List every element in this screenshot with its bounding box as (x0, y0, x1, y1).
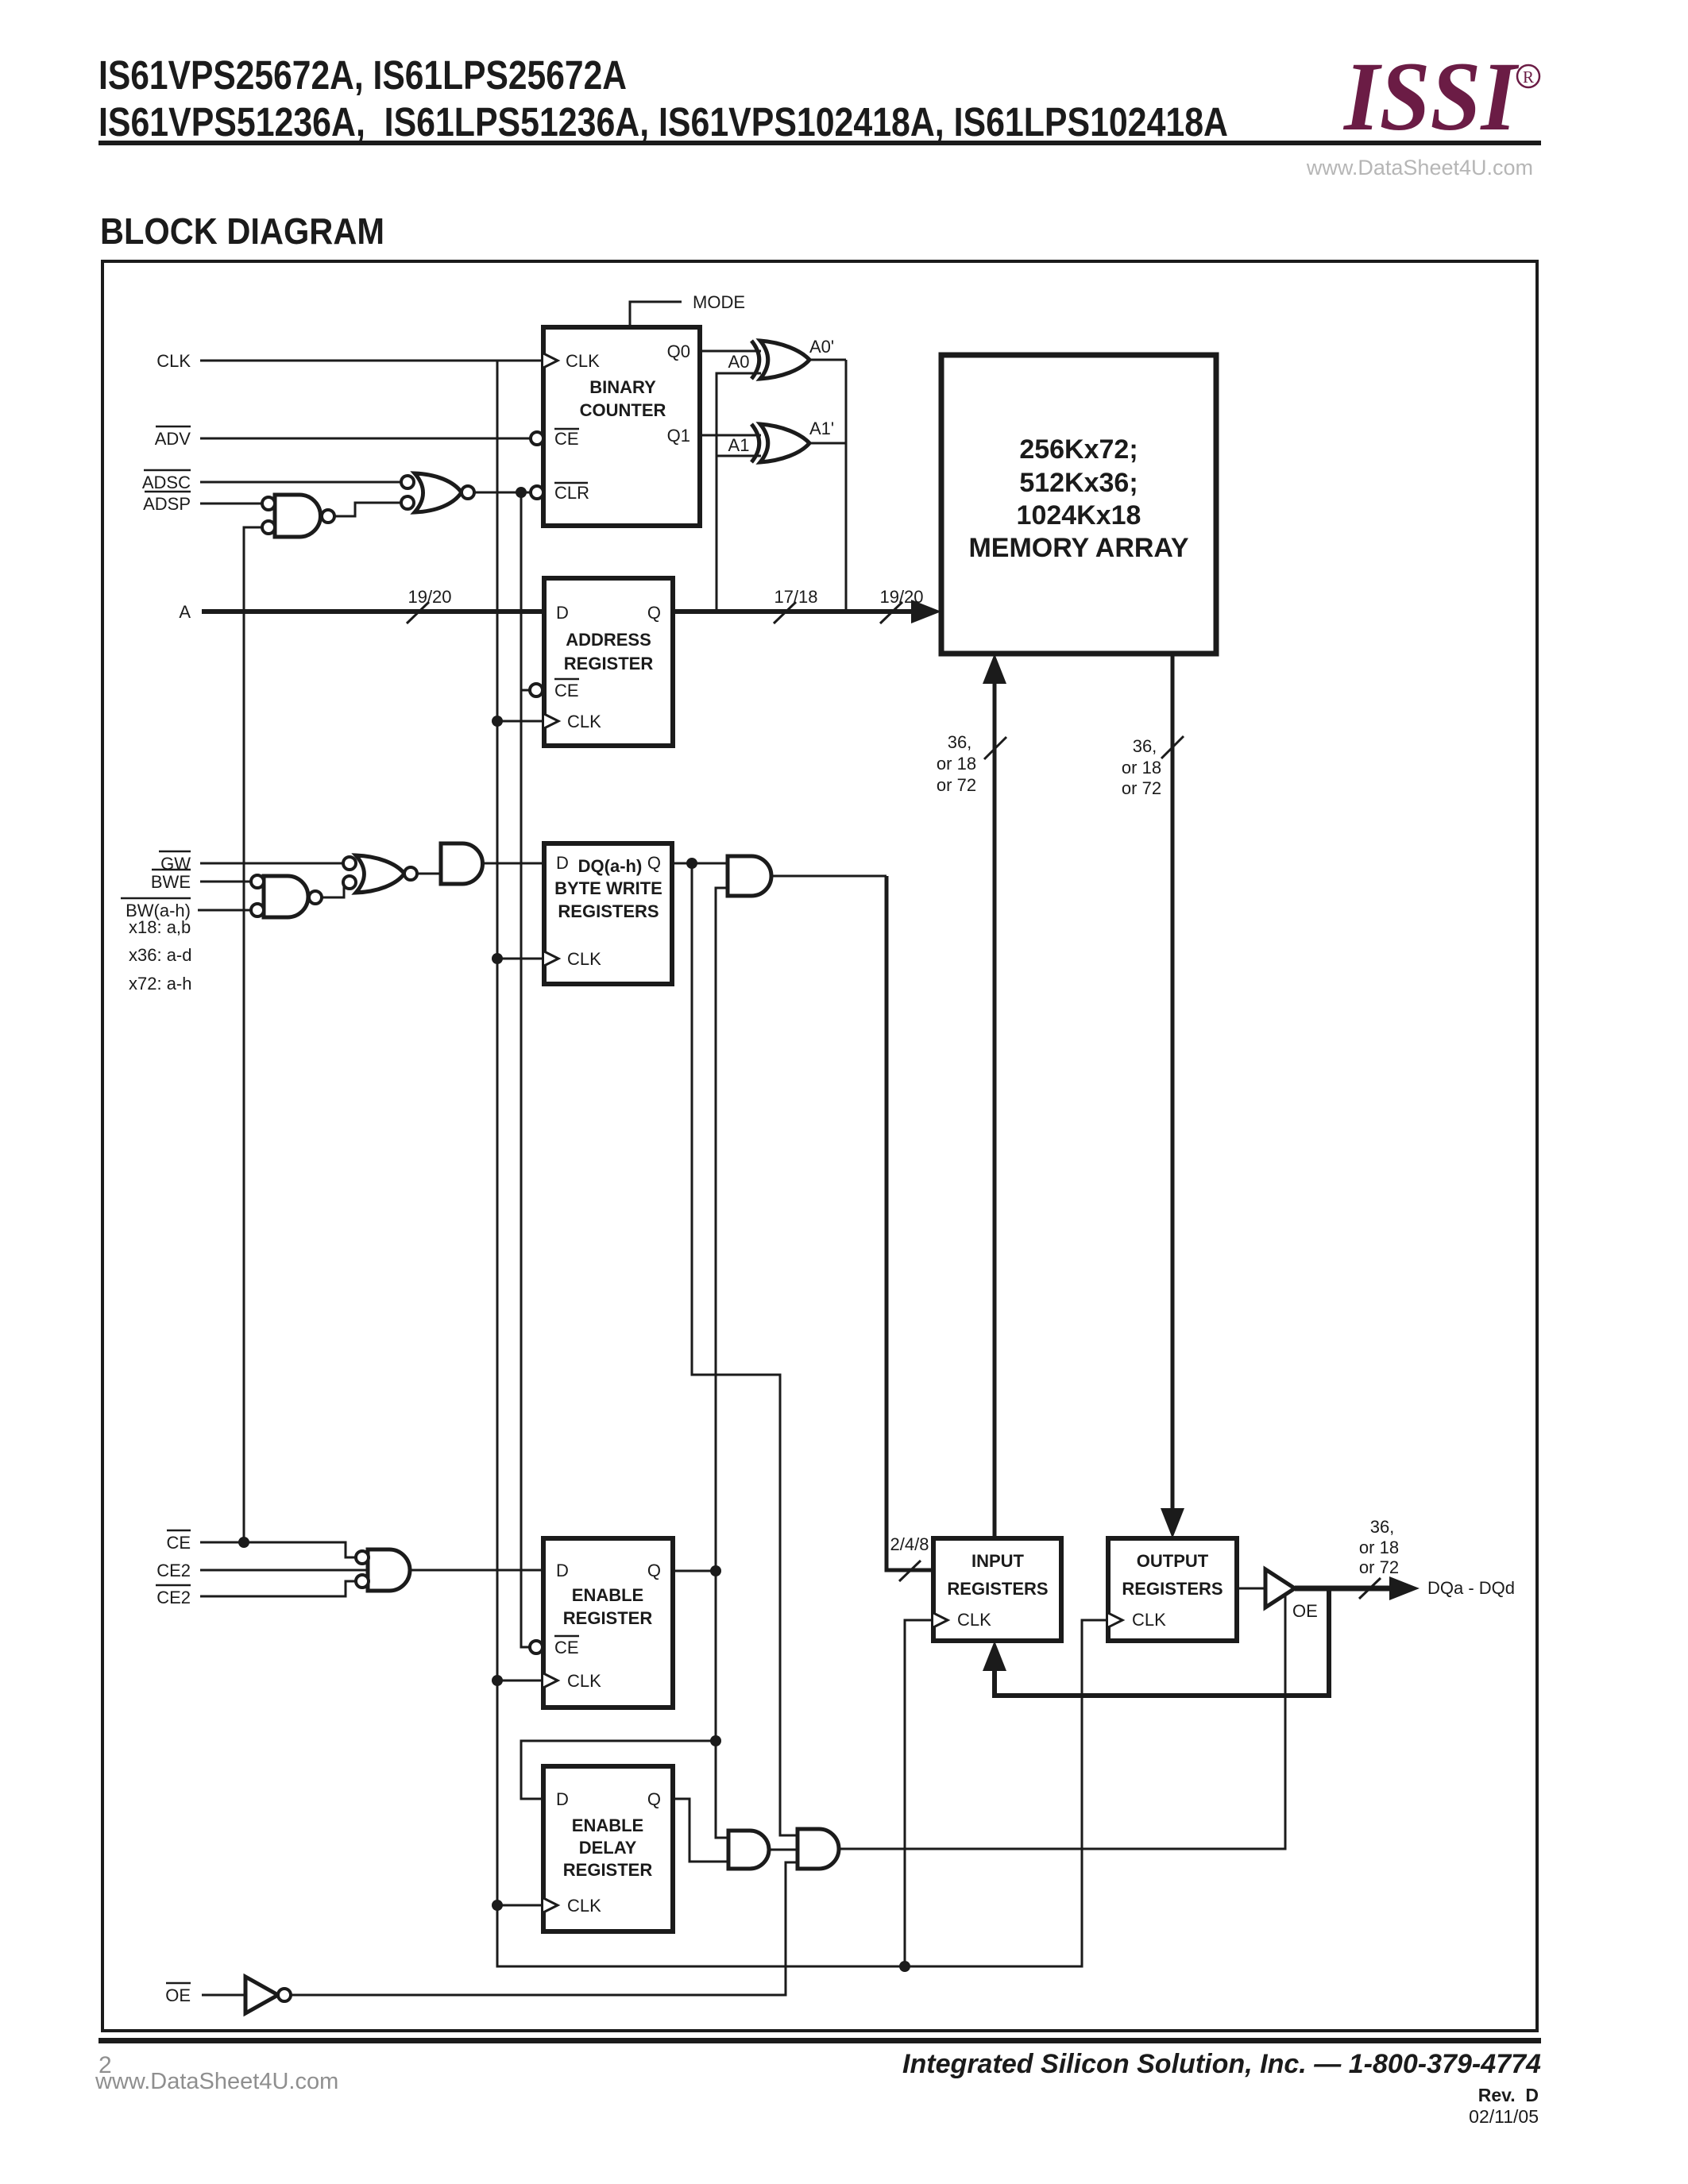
svg-text:CLK: CLK (567, 1671, 601, 1691)
svg-text:ADV: ADV (155, 429, 191, 449)
svg-text:www.DataSheet4U.com: www.DataSheet4U.com (95, 2069, 338, 2094)
svg-text:CLK: CLK (156, 351, 191, 371)
bubble counter CLR input (531, 486, 543, 499)
junction dot enable register Q (710, 1565, 721, 1576)
wire CLK input (200, 360, 543, 362)
svg-text:REGISTERS: REGISTERS (947, 1579, 1048, 1599)
svg-text:DQ(a-h): DQ(a-h) (578, 856, 643, 876)
arrowhead write data into memory (983, 654, 1006, 684)
svg-text:CE2: CE2 (156, 1588, 191, 1607)
xor gate XOR1 (A0) (751, 341, 809, 379)
svg-text:ISSI: ISSI (1342, 42, 1519, 151)
svg-text:DELAY: DELAY (579, 1838, 637, 1858)
and gate G9 (output enable) (798, 1829, 839, 1869)
signal label BWE (151, 870, 191, 892)
svg-text:36,: 36, (948, 732, 972, 752)
signal label ADSP (143, 492, 191, 514)
write data path 2/4/8 from G6 to input registers (886, 876, 933, 1570)
svg-text:or 72: or 72 (1359, 1557, 1399, 1577)
junction dot enable delay D (710, 1735, 721, 1746)
svg-text:A1: A1 (728, 435, 750, 455)
svg-text:CLK: CLK (567, 712, 601, 731)
svg-text:Q: Q (647, 853, 661, 873)
svg-text:A0: A0 (728, 352, 750, 372)
svg-text:1024Kx18: 1024Kx18 (1017, 500, 1141, 531)
svg-text:BINARY: BINARY (589, 377, 656, 397)
svg-text:Q: Q (647, 603, 661, 623)
wire CE2 input (200, 1569, 368, 1572)
signal label ADV (155, 426, 191, 449)
address bus A (input segment) (202, 609, 544, 614)
svg-text:x18: a,b: x18: a,b (129, 917, 191, 937)
wire OE inverter output to G9 lower input (291, 1862, 798, 1995)
footer rule (98, 2038, 1541, 2043)
junction dot CLK at enable register (492, 1675, 503, 1686)
svg-text:REGISTER: REGISTER (564, 654, 654, 673)
svg-text:CE: CE (166, 1533, 191, 1553)
address bus Q segment to memory (673, 609, 915, 614)
binary counter box (543, 327, 700, 526)
wire Q0 to XOR1 (700, 350, 761, 353)
svg-text:D: D (556, 1561, 569, 1580)
svg-text:D: D (556, 1789, 569, 1809)
wire CLK branch to input registers (905, 1620, 933, 1966)
byte write registers box (544, 843, 672, 984)
svg-text:or 18: or 18 (937, 754, 976, 774)
svg-text:19/20: 19/20 (879, 587, 923, 607)
svg-text:BYTE WRITE: BYTE WRITE (554, 878, 662, 898)
svg-text:D: D (556, 603, 569, 623)
wire ADSP input (200, 503, 262, 505)
junction dot CLK at byte write registers (492, 953, 503, 964)
svg-text:INPUT: INPUT (971, 1551, 1025, 1571)
arrowhead read data into output registers (1161, 1508, 1184, 1538)
svg-text:COUNTER: COUNTER (580, 400, 666, 420)
signal label CE2 bar (156, 1585, 191, 1607)
wire ADS tap to address register CE (521, 689, 530, 692)
wire BWE input (200, 881, 251, 883)
arrowhead address bus into memory (911, 600, 941, 623)
svg-text:CLK: CLK (567, 1896, 601, 1916)
svg-text:or 72: or 72 (1122, 778, 1161, 798)
nand gate G1 (ADSP/CE) (262, 495, 334, 537)
and gate G7 (CE/CE2/CE2) (356, 1549, 410, 1591)
memory array box (941, 355, 1216, 654)
bus slash 19/20 input (407, 602, 1381, 1599)
wire Q1 to XOR2 (700, 434, 761, 437)
svg-text:OUTPUT: OUTPUT (1137, 1551, 1209, 1571)
svg-text:02/11/05: 02/11/05 (1469, 2106, 1539, 2127)
svg-text:MEMORY ARRAY: MEMORY ARRAY (968, 533, 1188, 563)
svg-text:ADSC: ADSC (142, 473, 191, 492)
output registers box (1108, 1538, 1237, 1641)
bubble enable register CE input (530, 1641, 543, 1653)
svg-text:OE: OE (165, 1985, 191, 2005)
wire ADS trunk to enable register CE (521, 492, 530, 1647)
wire OE input (202, 1994, 245, 1997)
svg-text:x72: a-h: x72: a-h (129, 974, 192, 994)
svg-text:or 18: or 18 (1359, 1538, 1399, 1557)
nor gate G4 (GW + G3) (343, 855, 417, 893)
svg-text:CLK: CLK (566, 351, 600, 371)
wire output registers Q to buffer (1237, 1588, 1265, 1590)
wire MODE (630, 302, 682, 327)
nand gate G3 (BWE/BW) (251, 875, 322, 917)
wire BW(a-h) input (198, 909, 251, 912)
wire G6 output (771, 875, 886, 878)
wire CLK trunk (497, 361, 1108, 1966)
svg-text:CLK: CLK (1132, 1610, 1166, 1630)
svg-text:R: R (1523, 68, 1534, 87)
bus width label 36 or 18 or 72 (read path) (1122, 736, 1161, 798)
svg-text:36,: 36, (1133, 736, 1157, 756)
wire G8 output to G9 (769, 1849, 798, 1851)
wire enable Q vertical to G6 lower input and G8 upper input (716, 888, 728, 1838)
svg-text:A1': A1' (809, 419, 834, 438)
svg-text:CLK: CLK (567, 949, 601, 969)
svg-text:CLR: CLR (554, 483, 589, 503)
wire byte write Q trunk to G9 upper input (692, 863, 798, 1835)
svg-text:ENABLE: ENABLE (572, 1585, 643, 1605)
and gate G6 (byte write and enable) (728, 856, 771, 896)
svg-text:Integrated Silicon Solution, I: Integrated Silicon Solution, Inc. — 1-80… (902, 2049, 1541, 2079)
svg-text:IS61VPS51236A, IS61LPS51236A,: IS61VPS51236A, IS61LPS51236A, IS61VPS102… (98, 99, 1228, 145)
bus width label 36 or 18 or 72 (write path) (937, 732, 976, 795)
wire CE to NAND G1 lower input (244, 527, 262, 1542)
wire G5 output to byte write D (483, 862, 544, 865)
wire byte write Q to G6 (672, 862, 728, 865)
svg-text:BWE: BWE (151, 872, 191, 892)
svg-text:CE2: CE2 (156, 1561, 191, 1580)
wire enable delay D loop (521, 1741, 716, 1799)
wire G9 output to output buffer enable (839, 1595, 1285, 1849)
signal label OE (165, 1983, 191, 2005)
wire XOR1 output A0' (809, 359, 846, 361)
ISSI logo (1342, 42, 1539, 151)
diagram frame (102, 261, 1537, 2031)
signal label ADSC (142, 470, 191, 492)
wire G2 output to counter CLR (474, 492, 531, 494)
arrowhead feedback into input registers (983, 1641, 1006, 1671)
svg-text:CE: CE (554, 681, 579, 700)
input registers box (933, 1538, 1061, 1641)
inverter OE (245, 1977, 291, 2013)
wire CLK tap to address register (497, 720, 544, 723)
wire GW input (200, 862, 344, 865)
junction dot CLK at address register (492, 716, 503, 727)
svg-text:17/18: 17/18 (774, 587, 817, 607)
wire CE2bar input (200, 1581, 356, 1596)
and gate G8 (enable and delay) (728, 1831, 769, 1869)
wire CLK tap to enable register (497, 1680, 543, 1682)
wire ADSC input (200, 481, 401, 484)
wire A feed to XOR1 lower input (717, 373, 761, 612)
svg-text:256Kx72;: 256Kx72; (1019, 434, 1138, 465)
enable register box (543, 1538, 673, 1707)
svg-text:Rev. D: Rev. D (1478, 2085, 1539, 2105)
svg-text:ADSP: ADSP (143, 494, 191, 514)
junction dot CLK at enable delay register (492, 1900, 503, 1911)
svg-text:19/20: 19/20 (408, 587, 451, 607)
wire G1 output to G2 lower input (334, 503, 400, 516)
xor gate XOR2 (A1) (751, 424, 809, 462)
svg-text:A: A (179, 602, 191, 622)
svg-text:IS61VPS25672A, IS61LPS25672A: IS61VPS25672A, IS61LPS25672A (98, 52, 627, 98)
wire CE input (200, 1542, 356, 1557)
svg-text:x36: a-d: x36: a-d (129, 945, 192, 965)
junction dot CLK at input registers branch (899, 1961, 910, 1972)
svg-text:Q: Q (647, 1789, 661, 1809)
junction dot byte write Q (686, 858, 697, 869)
svg-text:D: D (556, 853, 569, 873)
wire G3 output to G4 lower input (322, 882, 344, 897)
svg-text:REGISTER: REGISTER (563, 1860, 653, 1880)
svg-text:www.DataSheet4U.com: www.DataSheet4U.com (1306, 156, 1533, 179)
svg-text:REGISTERS: REGISTERS (558, 901, 659, 921)
write data path input registers to memory (993, 680, 997, 1538)
header rule (98, 141, 1541, 145)
svg-text:REGISTERS: REGISTERS (1122, 1579, 1223, 1599)
bubble address register CE input (530, 684, 543, 696)
wire CLK tap to byte write registers (497, 958, 544, 960)
svg-text:CE: CE (554, 429, 579, 449)
address register box (544, 578, 673, 746)
output buffer triangle (1265, 1569, 1295, 1607)
svg-text:512Kx36;: 512Kx36; (1019, 468, 1138, 498)
wire XOR2 output A1' (809, 442, 846, 445)
svg-text:OE: OE (1292, 1601, 1318, 1621)
nor gate G2 (ADSC + G1) (401, 473, 474, 512)
signal label GW (159, 851, 191, 874)
arrowhead DQ output (1389, 1576, 1420, 1600)
svg-text:CE: CE (554, 1638, 579, 1657)
bubble counter CE input (531, 432, 543, 445)
junction dot ADS node at CLR (516, 487, 527, 498)
svg-text:36,: 36, (1370, 1517, 1395, 1537)
svg-text:DQa - DQd: DQa - DQd (1427, 1578, 1515, 1598)
svg-text:Q1: Q1 (667, 426, 690, 446)
svg-text:MODE: MODE (693, 292, 745, 312)
wire A feed tap to XOR2 lower input (717, 455, 761, 457)
wire G4 output to G5 (417, 873, 441, 875)
wire enable register Q (673, 1570, 716, 1572)
svg-text:CLK: CLK (957, 1610, 991, 1630)
junction dot CE line (238, 1537, 249, 1548)
svg-text:A0': A0' (809, 337, 834, 357)
wire A0'/A1' vertical to address bus (845, 360, 848, 612)
svg-text:ADDRESS: ADDRESS (566, 630, 651, 650)
wire G7 output to enable register D (411, 1569, 543, 1572)
bus width label 36 or 18 or 72 (DQ) (1359, 1517, 1399, 1577)
DQ output bus from buffer (1295, 1586, 1392, 1592)
svg-text:Q: Q (647, 1561, 661, 1580)
signal label CE (166, 1530, 191, 1553)
svg-text:Q0: Q0 (667, 341, 690, 361)
wire ADV input (200, 438, 531, 440)
and gate G5 (write enable buffer) (441, 843, 483, 884)
svg-text:or 72: or 72 (937, 775, 976, 795)
wire enable delay Q loop to G8 lower input (673, 1799, 728, 1862)
read data path memory to output registers (1171, 654, 1175, 1511)
signal label BW(a-h) (121, 898, 191, 920)
svg-text:REGISTER: REGISTER (563, 1608, 653, 1628)
svg-text:2/4/8: 2/4/8 (890, 1534, 929, 1554)
svg-text:or 18: or 18 (1122, 758, 1161, 778)
wire CLK tap to enable delay register (497, 1904, 543, 1907)
enable delay register box (543, 1766, 673, 1931)
svg-text:BLOCK DIAGRAM: BLOCK DIAGRAM (100, 210, 384, 252)
svg-text:ENABLE: ENABLE (572, 1815, 643, 1835)
DQ write feedback path to input registers (995, 1588, 1329, 1696)
